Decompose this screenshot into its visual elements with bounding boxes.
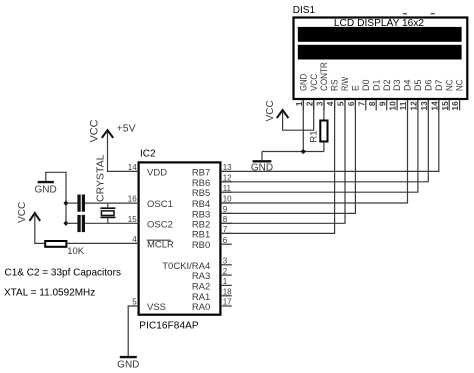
svg-text:RB5: RB5 (192, 188, 210, 199)
svg-text:17: 17 (223, 298, 232, 307)
LCD pin 7 stub (365, 100, 367, 111)
svg-text:NC: NC (455, 79, 465, 91)
svg-text:RA0: RA0 (192, 302, 210, 313)
svg-text:C1& C2 = 33pf Capacitors: C1& C2 = 33pf Capacitors (5, 267, 121, 278)
wire LCD pin 4 to RB1 (221, 100, 335, 233)
wire LCD pin 14 to RB7 (221, 100, 439, 171)
wire ground rail horizontal (262, 151, 324, 153)
svg-text:VCC: VCC (265, 100, 276, 121)
svg-text:RB1: RB1 (192, 229, 210, 240)
wire VDD pin 14 to +5V arrow (108, 131, 139, 171)
svg-text:9: 9 (223, 205, 228, 214)
svg-text:GND: GND (251, 162, 273, 173)
svg-text:GND: GND (117, 359, 139, 370)
wire LCD pin 6 to RB3 (221, 100, 356, 213)
wire LCD pin 13 to RB6 (221, 100, 429, 182)
svg-text:7: 7 (223, 225, 228, 234)
svg-text:14: 14 (430, 101, 439, 111)
ground symbol near crystal bar (38, 181, 54, 183)
wire bus to C1 (66, 202, 77, 204)
wire LCD pin 2 to VCC (283, 100, 314, 130)
svg-text:10: 10 (223, 195, 232, 204)
resistor R1 (320, 121, 327, 142)
IC2 pin 7 stub (RB1) (221, 232, 232, 234)
stray mark right (431, 13, 435, 14)
svg-text:4: 4 (326, 101, 335, 106)
svg-text:CONTR: CONTR (319, 62, 329, 91)
ground symbol bottom bar (120, 356, 137, 358)
svg-text:6: 6 (223, 236, 228, 245)
IC2 pin 12 stub (RB6) (221, 181, 232, 183)
svg-text:10: 10 (389, 101, 398, 111)
svg-text:RB6: RB6 (192, 178, 210, 189)
LCD pin 3 stub (323, 100, 325, 111)
svg-text:VCC: VCC (17, 202, 28, 223)
LCD pin 1 stub (302, 100, 304, 111)
capacitor C2 (77, 215, 85, 232)
svg-text:OSC2: OSC2 (147, 219, 173, 230)
wire bus to C2 (66, 222, 77, 224)
svg-text:6: 6 (347, 101, 356, 106)
wire LCD pin 5 to RB2 (221, 100, 345, 223)
svg-text:R1: R1 (309, 130, 320, 142)
svg-text:D2: D2 (382, 80, 392, 92)
LCD display DIS1 body (294, 18, 468, 100)
LCD pin 13 stub (427, 100, 429, 111)
power VCC arrow (+5V supply) (102, 130, 113, 138)
power VCC arrow (LCD supply) (277, 110, 289, 118)
wire LCD pin 1 to ground rail (302, 100, 304, 152)
IC2 pin 2 stub (RA3) (221, 274, 232, 276)
svg-text:D4: D4 (403, 80, 413, 92)
svg-text:VDD: VDD (147, 167, 167, 178)
IC2 pin 6 stub (RB0) (221, 243, 232, 245)
svg-text:11: 11 (399, 101, 408, 110)
wire VSS pin 5 to ground (128, 306, 138, 356)
svg-text:12: 12 (410, 101, 419, 111)
MCLR overline (147, 239, 171, 241)
IC2 pin 10 stub (RB4) (221, 202, 232, 204)
LCD pin 2 stub (313, 100, 315, 111)
svg-text:DIS1: DIS1 (293, 5, 316, 16)
svg-text:IC2: IC2 (140, 149, 156, 160)
LCD pin 12 stub (417, 100, 419, 111)
svg-text:CRYSTAL: CRYSTAL (94, 154, 106, 202)
svg-text:R/W: R/W (340, 77, 350, 91)
LCD pin 5 stub (344, 100, 346, 111)
LCD screen line 2 (298, 45, 462, 60)
svg-text:16: 16 (451, 101, 460, 111)
wire 10K to MCLR pin 4 (66, 242, 138, 244)
svg-text:RA2: RA2 (192, 281, 210, 292)
svg-text:MCLR: MCLR (147, 239, 174, 250)
svg-text:GND: GND (34, 185, 56, 196)
svg-text:14: 14 (128, 163, 137, 172)
svg-text:VCC: VCC (88, 119, 100, 142)
svg-text:RS: RS (330, 80, 340, 92)
svg-text:11: 11 (223, 184, 232, 193)
wire C1 to OSC1 (85, 202, 139, 204)
svg-text:10K: 10K (67, 246, 85, 257)
svg-text:18: 18 (223, 288, 232, 297)
LCD screen line 1 (298, 27, 462, 42)
svg-text:PIC16F84AP: PIC16F84AP (139, 321, 199, 332)
svg-text:XTAL = 11.0592MHz: XTAL = 11.0592MHz (4, 287, 95, 298)
svg-text:E: E (351, 85, 361, 91)
svg-text:13: 13 (420, 101, 429, 111)
svg-text:D0: D0 (361, 80, 371, 92)
stray mark left (403, 13, 407, 14)
LCD pin 10 stub (396, 100, 398, 111)
LCD pin 14 stub (438, 100, 440, 111)
svg-text:5: 5 (132, 298, 137, 307)
svg-text:OSC1: OSC1 (147, 199, 173, 210)
wire VCC to 10K resistor (35, 214, 45, 244)
IC2 pin 1 stub (RA2) (221, 284, 232, 286)
LCD pin 16 stub (459, 100, 461, 111)
IC2 pin 3 stub (RA4) (221, 264, 232, 266)
svg-text:4: 4 (132, 235, 137, 244)
svg-text:13: 13 (223, 163, 232, 172)
wire ground to capacitor bus (46, 172, 66, 223)
svg-text:15: 15 (128, 215, 137, 224)
svg-text:7: 7 (357, 101, 366, 106)
LCD pin 4 stub (334, 100, 336, 111)
LCD pin 15 stub (448, 100, 450, 111)
svg-text:D5: D5 (413, 80, 423, 92)
wire LCD pin 12 to RB5 (221, 100, 418, 192)
IC2 pin 11 stub (RB5) (221, 191, 232, 193)
svg-text:D7: D7 (434, 80, 444, 92)
svg-text:D6: D6 (423, 80, 433, 92)
junction node at LCD ground rail (301, 149, 306, 154)
svg-text:VSS: VSS (147, 302, 166, 313)
svg-text:D3: D3 (392, 80, 402, 92)
IC U1 PIC16F84AP body (139, 162, 221, 314)
IC2 pin 9 stub (RB3) (221, 212, 232, 214)
IC2 pin 8 stub (RB2) (221, 222, 232, 224)
junction node bus/C2 (63, 221, 68, 226)
junction node bus/C1 (63, 201, 68, 206)
ground symbol near LCD stub (261, 152, 263, 161)
svg-text:15: 15 (441, 101, 450, 111)
svg-text:9: 9 (378, 101, 387, 106)
crystal X1 (100, 203, 115, 223)
svg-text:12: 12 (223, 174, 232, 183)
svg-text:GND: GND (298, 73, 308, 91)
svg-text:2: 2 (305, 101, 314, 106)
LCD pin 6 stub (354, 100, 356, 111)
wire LCD pin 11 to RB4 (221, 100, 408, 203)
ground symbol near LCD bar (253, 160, 272, 162)
resistor R2 10K (45, 241, 66, 247)
svg-text:8: 8 (368, 101, 377, 106)
svg-text:2: 2 (223, 267, 228, 276)
svg-text:RB4: RB4 (192, 199, 210, 210)
wire C2 to OSC2 (85, 222, 139, 224)
IC2 pin 18 stub (RA1) (221, 295, 232, 297)
capacitor C1 (77, 195, 85, 212)
power VCC arrow (MCLR pull-up) (30, 213, 41, 221)
wire LCD pin 3 to R1 (323, 100, 325, 121)
svg-text:VCC: VCC (309, 73, 319, 91)
svg-text:1: 1 (295, 101, 304, 106)
svg-text:16: 16 (128, 195, 137, 204)
svg-text:+5V: +5V (117, 123, 136, 135)
IC2 pin 17 stub (RA0) (221, 305, 232, 307)
LCD pin 8 stub (375, 100, 377, 111)
LCD pin 9 stub (386, 100, 388, 111)
wire R1 to ground rail (323, 142, 325, 152)
IC2 pin 13 stub (RB7) (221, 170, 232, 172)
svg-text:RB7: RB7 (192, 167, 210, 178)
svg-text:5: 5 (337, 101, 346, 106)
svg-text:NC: NC (444, 79, 454, 91)
svg-text:8: 8 (223, 215, 228, 224)
LCD pin 11 stub (407, 100, 409, 111)
svg-text:D1: D1 (371, 80, 381, 92)
svg-text:RB0: RB0 (192, 240, 210, 251)
svg-text:3: 3 (223, 257, 228, 266)
svg-text:1: 1 (223, 277, 228, 286)
